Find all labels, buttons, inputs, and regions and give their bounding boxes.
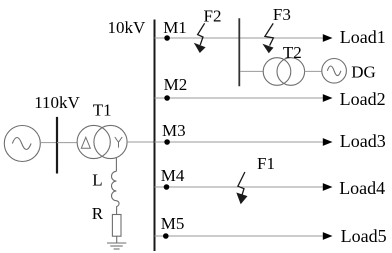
svg-text:Load1: Load1 [340,27,386,47]
transformer T2 [263,58,304,86]
generator DG [322,59,347,84]
junction dot M1 [164,35,170,41]
ground [107,236,126,249]
arrowhead Load3 [323,138,333,146]
svg-text:M4: M4 [161,166,185,185]
svg-text:M5: M5 [161,214,185,233]
110kV bus [56,117,58,174]
junction dot M3 [164,139,170,145]
svg-text:T1: T1 [93,101,112,120]
wire T1 neutral down [115,158,117,172]
inductor L [112,171,120,214]
svg-text:Load2: Load2 [340,89,386,109]
feeder M1 wire [155,37,323,39]
svg-text:F1: F1 [257,154,275,173]
wire T2 to DG [305,70,322,72]
junction dot M4 [164,184,170,190]
generator G1 [4,126,40,162]
wire generator to 110kV bus [40,142,56,144]
svg-text:T2: T2 [283,43,302,62]
arrowhead Load2 [323,94,333,102]
T2 tap bar [238,18,240,86]
junction dot M5 [163,233,169,239]
fault F3 [262,23,273,53]
junction dot M2 [164,95,170,101]
wire tap bar to T2 [240,70,263,72]
feeder M3 wire [155,141,323,143]
svg-text:M3: M3 [162,121,186,140]
svg-text:10kV: 10kV [108,18,147,37]
feeder M2 wire [155,97,323,99]
svg-text:F3: F3 [273,5,291,24]
wire 110kV bus to T1 [57,142,78,144]
svg-text:Load3: Load3 [340,131,386,151]
svg-text:DG: DG [351,63,376,82]
svg-text:M2: M2 [164,75,188,94]
svg-text:R: R [92,204,104,223]
svg-text:F2: F2 [204,6,222,25]
svg-text:M1: M1 [163,18,187,37]
feeder M4 wire [155,186,323,188]
10kV bus [154,20,156,252]
feeder M5 wire [155,235,323,237]
svg-text:110kV: 110kV [34,93,80,112]
fault F2 [194,23,206,53]
arrowhead Load1 [323,34,333,42]
arrowhead Load4 [323,183,333,191]
wire T1 to 10kV bus [127,141,154,143]
svg-text:Load5: Load5 [341,226,387,246]
fault F1 [236,172,247,204]
svg-text:L: L [92,170,102,189]
resistor R [112,215,121,237]
transformer T1 [77,125,127,158]
svg-text:Load4: Load4 [339,178,385,198]
arrowhead Load5 [323,232,333,240]
